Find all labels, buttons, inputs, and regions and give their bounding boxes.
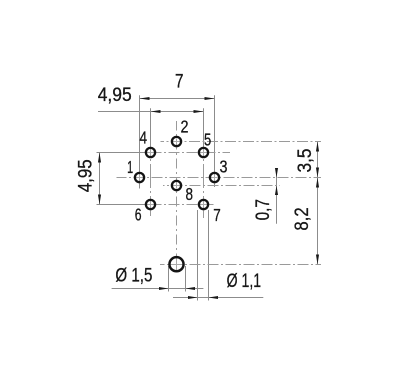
svg-text:8: 8 (186, 184, 194, 204)
svg-text:6: 6 (135, 205, 142, 225)
svg-text:3,5: 3,5 (294, 148, 316, 172)
svg-text:4: 4 (140, 128, 148, 148)
svg-text:0,7: 0,7 (252, 199, 274, 220)
svg-text:1: 1 (127, 157, 133, 177)
svg-text:2: 2 (181, 117, 189, 137)
svg-text:Ø 1,1: Ø 1,1 (227, 270, 262, 292)
svg-text:7: 7 (213, 205, 221, 225)
svg-text:8,2: 8,2 (291, 207, 313, 230)
svg-text:7: 7 (175, 71, 184, 93)
svg-text:4,95: 4,95 (98, 84, 132, 106)
svg-text:3: 3 (220, 157, 228, 177)
svg-text:4,95: 4,95 (75, 159, 97, 192)
svg-text:Ø 1,5: Ø 1,5 (115, 265, 152, 287)
svg-text:5: 5 (204, 130, 211, 150)
